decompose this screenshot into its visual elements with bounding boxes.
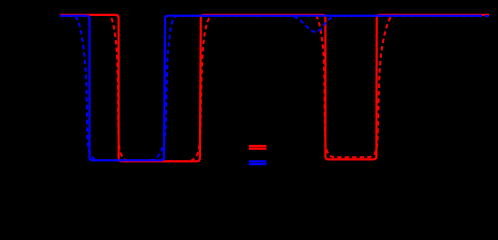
solid blue curve: baseline with one flat-bottom notch xyxy=(60,16,482,161)
legend sample: solid red line xyxy=(249,145,267,147)
solid red curve: baseline with two flat-bottom notches xyxy=(60,15,489,161)
legend sample: solid blue line xyxy=(249,160,267,162)
legend sample: dashed blue line xyxy=(249,163,267,165)
legend sample: dashed red line xyxy=(249,148,267,150)
dashed blue curve (notch + shallow dip near right red notch) xyxy=(60,16,489,160)
dashed red curve xyxy=(60,15,489,162)
